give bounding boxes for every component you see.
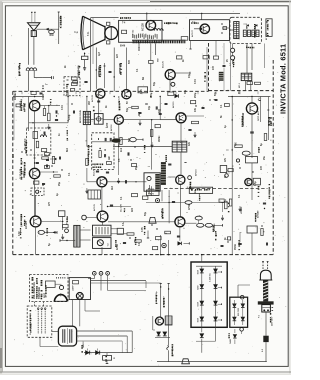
svg-text:T.O.: T.O. (87, 31, 90, 36)
svg-text:BF195 OC45: BF195 OC45 (79, 109, 82, 123)
svg-text:OA85: OA85 (229, 339, 232, 344)
svg-text:350Ω: 350Ω (235, 244, 237, 250)
svg-text:T.A.: T.A. (122, 222, 125, 226)
svg-text:h.p: h.p (75, 31, 79, 34)
svg-text:C4 50: C4 50 (42, 93, 45, 100)
svg-text:T.U.: T.U. (108, 243, 110, 247)
svg-text:B250: B250 (198, 318, 200, 322)
svg-text:50µ: 50µ (145, 211, 147, 216)
svg-text:B250: B250 (198, 302, 200, 306)
svg-text:OA210: OA210 (82, 341, 85, 348)
svg-text:30p: 30p (149, 105, 151, 110)
svg-text:30Ω: 30Ω (49, 35, 54, 37)
svg-text:R1 2k2: R1 2k2 (15, 92, 17, 100)
svg-text:G.30.1.88: G.30.1.88 (61, 16, 63, 27)
svg-text:AC128: AC128 (142, 23, 145, 31)
svg-text:AC125: AC125 (162, 60, 165, 68)
svg-text:25u 12V: 25u 12V (121, 204, 123, 212)
svg-text:AF115: AF115 (172, 101, 175, 108)
svg-text:AC126: AC126 (93, 168, 96, 176)
svg-text:AT6549: AT6549 (257, 210, 260, 218)
svg-text:8Ω: 8Ω (143, 77, 145, 80)
svg-text:125Ω: 125Ω (117, 244, 119, 250)
svg-text:AF114: AF114 (195, 169, 198, 176)
svg-text:10µ: 10µ (189, 73, 191, 78)
svg-text:OA79: OA79 (148, 187, 151, 194)
svg-text:0.04: 0.04 (61, 105, 64, 110)
svg-text:B250: B250 (198, 286, 200, 290)
svg-text:220V 127V: 220V 127V (272, 316, 274, 326)
svg-text:B250: B250 (198, 270, 200, 274)
svg-text:OC71 4K7: OC71 4K7 (257, 110, 260, 121)
svg-text:25u: 25u (264, 155, 266, 160)
svg-text:0.5µ: 0.5µ (255, 181, 257, 186)
svg-text:2n2: 2n2 (121, 147, 123, 152)
svg-text:25µ: 25µ (59, 181, 61, 186)
svg-text:0.04: 0.04 (194, 79, 197, 84)
svg-text:AC128: AC128 (91, 94, 94, 102)
svg-text:50µ: 50µ (127, 107, 129, 112)
svg-text:AM: AM (108, 156, 111, 160)
svg-text:100p: 100p (69, 114, 71, 120)
svg-text:INVICTA Mod. 6511: INVICTA Mod. 6511 (278, 44, 287, 114)
svg-text:1200: 1200 (107, 122, 109, 128)
svg-text:· ·: · · (168, 196, 170, 199)
svg-text:16µ: 16µ (185, 89, 187, 94)
svg-text:AC127: AC127 (191, 29, 194, 37)
svg-text:100µ: 100µ (151, 92, 153, 98)
svg-text:0.05: 0.05 (142, 227, 144, 232)
svg-text:AC125: AC125 (93, 203, 96, 211)
svg-text:LAMP: LAMP (72, 285, 75, 291)
svg-text:8046: 8046 (120, 45, 126, 48)
svg-text:TONO 5kΩ: TONO 5kΩ (39, 287, 41, 299)
svg-text:MF-1: MF-1 (239, 82, 241, 88)
svg-text:50µ: 50µ (154, 81, 156, 86)
svg-text:INT 220V: INT 220V (31, 324, 33, 333)
svg-text:C 250 S.E.: C 250 S.E. (210, 272, 212, 282)
svg-text:VOL 10kΩ LOG: VOL 10kΩ LOG (34, 282, 36, 299)
svg-text:B30 C300: B30 C300 (238, 308, 240, 316)
svg-text:AF116: AF116 (110, 124, 113, 131)
svg-text:470Ω: 470Ω (188, 204, 191, 210)
svg-text:S-2: S-2 (262, 349, 264, 352)
svg-text:250µ: 250µ (195, 92, 197, 98)
svg-text:460kc: 460kc (158, 135, 161, 142)
